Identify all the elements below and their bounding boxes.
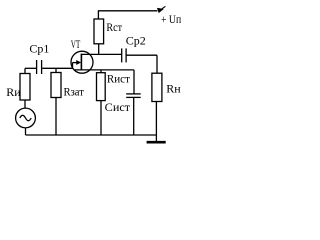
svg-text:Rзат: Rзат <box>64 84 85 98</box>
svg-text:Rст: Rст <box>106 20 122 34</box>
svg-text:+ Uп: + Uп <box>161 12 182 26</box>
svg-text:VT: VT <box>71 37 81 51</box>
svg-text:Сист: Сист <box>105 100 131 114</box>
svg-text:Rн: Rн <box>166 82 181 96</box>
svg-text:Ср1: Ср1 <box>29 42 49 56</box>
svg-text:Rи: Rи <box>6 85 21 99</box>
svg-text:Ср2: Ср2 <box>126 33 146 47</box>
svg-text:Rист: Rист <box>107 71 131 85</box>
